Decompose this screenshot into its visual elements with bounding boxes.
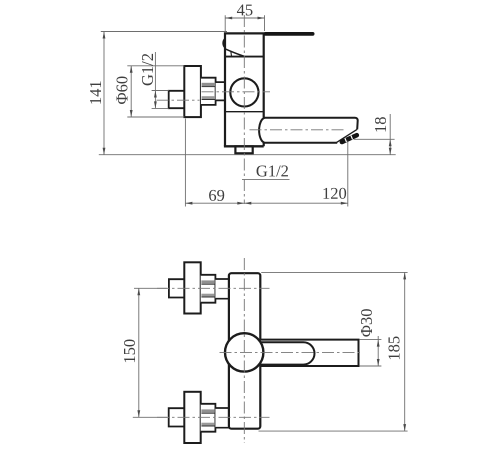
svg-text:Φ30: Φ30 <box>357 309 376 338</box>
svg-text:120: 120 <box>322 184 347 203</box>
svg-text:G1/2: G1/2 <box>256 161 289 180</box>
svg-text:69: 69 <box>208 186 225 205</box>
svg-text:18: 18 <box>371 117 390 134</box>
svg-text:150: 150 <box>120 339 139 364</box>
svg-text:Φ60: Φ60 <box>113 76 132 105</box>
svg-text:45: 45 <box>237 0 254 19</box>
svg-text:185: 185 <box>385 336 404 361</box>
svg-text:141: 141 <box>86 80 105 105</box>
svg-text:G1/2: G1/2 <box>138 53 157 86</box>
